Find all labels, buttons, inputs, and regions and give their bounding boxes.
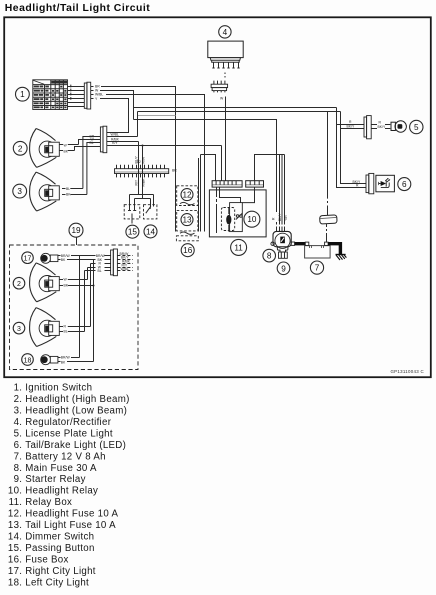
svg-text:Main Fuse 30 A: Main Fuse 30 A bbox=[25, 463, 97, 474]
svg-text:16.: 16. bbox=[8, 554, 22, 565]
svg-text:W/BL: W/BL bbox=[111, 132, 119, 136]
ignition switch connector bbox=[84, 82, 93, 109]
svg-text:13: 13 bbox=[182, 216, 192, 225]
main fuse holder pill bbox=[320, 215, 338, 224]
svg-text:W: W bbox=[64, 278, 68, 282]
svg-text:BK: BK bbox=[64, 149, 69, 153]
circle label 6 bbox=[398, 178, 411, 191]
svg-text:17.: 17. bbox=[8, 566, 22, 577]
svg-text:17: 17 bbox=[24, 256, 32, 263]
svg-text:BK: BK bbox=[61, 258, 66, 262]
headlight H2 in box cone bbox=[30, 263, 60, 302]
fuse box bottom dashed stub bbox=[176, 236, 198, 241]
svg-text:11: 11 bbox=[234, 243, 243, 252]
svg-text:Headlight (Low Beam): Headlight (Low Beam) bbox=[25, 406, 127, 417]
wire labels below bar bbox=[135, 178, 146, 187]
fuse element 12 bbox=[180, 202, 195, 204]
svg-text:Y: Y bbox=[95, 97, 98, 101]
wire pill to battery terminal bbox=[326, 224, 328, 243]
svg-text:10: 10 bbox=[247, 215, 257, 224]
starter relay right nub bbox=[291, 242, 294, 245]
battery 7 bbox=[305, 242, 331, 258]
left city light 18 bbox=[41, 355, 58, 365]
wire headlight pin3 down through bar to switches bbox=[138, 142, 140, 195]
svg-text:15.: 15. bbox=[8, 543, 22, 554]
circle label 13 bbox=[181, 214, 193, 226]
svg-text:Battery 12 V 8 Ah: Battery 12 V 8 Ah bbox=[25, 451, 106, 462]
circle label 16 bbox=[181, 244, 194, 257]
riser A in box bbox=[79, 256, 81, 358]
circle label 11 bbox=[231, 239, 247, 255]
regulator connector bbox=[211, 81, 228, 93]
circle label 9 bbox=[277, 262, 290, 275]
wire W ignition to bus A and bus D bbox=[100, 91, 134, 120]
circle label 19 bbox=[69, 223, 83, 237]
svg-text:BL: BL bbox=[64, 329, 68, 333]
svg-text:9.: 9. bbox=[14, 474, 23, 485]
wire battery plus feed from bus B bbox=[327, 112, 329, 216]
svg-text:R: R bbox=[379, 120, 382, 124]
svg-text:8: 8 bbox=[267, 252, 272, 261]
circle label 4 bbox=[219, 26, 231, 38]
svg-text:6.: 6. bbox=[14, 440, 23, 451]
svg-text:6: 6 bbox=[402, 180, 407, 189]
wires H3 in box bbox=[59, 325, 90, 334]
svg-text:5.: 5. bbox=[14, 428, 23, 439]
bus D horizontal to starter relay bbox=[134, 120, 277, 213]
headlight connector right pin wires bbox=[107, 132, 222, 145]
svg-text:Dimmer Switch: Dimmer Switch bbox=[25, 532, 94, 543]
svg-text:R/W: R/W bbox=[142, 156, 146, 163]
circle label 17 bbox=[22, 252, 34, 264]
starter relay 9 body bbox=[271, 231, 295, 258]
circle label 12 bbox=[181, 189, 193, 201]
headlight connector left pins labels bbox=[90, 134, 101, 146]
circle label 1 bbox=[16, 87, 30, 101]
svg-text:4.: 4. bbox=[14, 417, 23, 428]
svg-text:BK: BK bbox=[61, 360, 66, 364]
wire vertical x201 down bbox=[200, 155, 202, 232]
thick wire starter relay to battery bbox=[295, 242, 305, 245]
svg-text:1: 1 bbox=[20, 90, 25, 99]
right city light 17 bbox=[41, 253, 58, 263]
svg-text:14.: 14. bbox=[8, 532, 22, 543]
svg-text:10.: 10. bbox=[8, 486, 22, 497]
circle label 18 bbox=[22, 354, 34, 366]
svg-text:BK/Y: BK/Y bbox=[278, 213, 282, 221]
wire regulator to bus A and relay box bar1 bbox=[225, 97, 227, 181]
wire bus B right drop to comp5 and comp6 bbox=[341, 112, 367, 184]
tail brake light 6 box bbox=[376, 175, 395, 192]
svg-text:Right City Light: Right City Light bbox=[25, 566, 96, 577]
wire labels above bar bbox=[135, 155, 146, 163]
svg-text:5: 5 bbox=[414, 123, 419, 132]
headlight relay 10 internals bbox=[217, 187, 255, 233]
wires H3 up to connector risers bbox=[62, 137, 96, 197]
riser B in box bbox=[87, 268, 89, 280]
ground symbol bbox=[336, 255, 347, 261]
wires risers to box connector bbox=[80, 254, 111, 273]
junction dimmer branch bbox=[142, 145, 144, 147]
headlight H3 low beam cone bbox=[30, 172, 60, 211]
svg-text:7.: 7. bbox=[14, 451, 23, 462]
riser E ground in box bbox=[93, 260, 95, 362]
wire 19 to dashed box bbox=[76, 237, 78, 245]
wires H2 in box bbox=[59, 278, 93, 288]
svg-text:W: W bbox=[220, 97, 224, 101]
svg-text:3.: 3. bbox=[14, 406, 23, 417]
svg-text:Left City Light: Left City Light bbox=[25, 577, 89, 588]
svg-text:BL/Y: BL/Y bbox=[135, 155, 139, 163]
svg-text:2: 2 bbox=[17, 281, 21, 288]
headlight unit dashed box bbox=[10, 245, 139, 370]
svg-text:R/Y: R/Y bbox=[112, 141, 118, 145]
wire distributor 2 bbox=[135, 199, 151, 208]
ignition switch table bbox=[33, 80, 68, 110]
wires ignition switch to connector bbox=[68, 85, 85, 107]
svg-text:Passing Button: Passing Button bbox=[25, 543, 94, 554]
dashed stub wires right of box connector bbox=[117, 252, 133, 271]
svg-text:2: 2 bbox=[18, 144, 23, 153]
wire headlight pin4 long to relay bar1 bbox=[221, 146, 223, 181]
svg-text:15: 15 bbox=[128, 228, 138, 237]
wires H2 to connector bbox=[59, 140, 95, 154]
svg-text:BK: BK bbox=[64, 284, 69, 288]
svg-text:BR/W: BR/W bbox=[61, 356, 71, 360]
circle label 8 bbox=[263, 249, 276, 262]
wire dimmer branch down bbox=[142, 146, 144, 199]
svg-text:2.: 2. bbox=[14, 394, 23, 405]
svg-text:18.: 18. bbox=[8, 577, 22, 588]
riser C in box bbox=[90, 264, 92, 327]
svg-text:GP13110043 C: GP13110043 C bbox=[390, 369, 424, 374]
circle label 7 bbox=[310, 261, 323, 274]
starter relay left nub bbox=[271, 242, 274, 245]
junction riser E H2 bbox=[93, 285, 95, 287]
wire starter relay feeds dash-dot bbox=[272, 212, 289, 231]
passing button switch 15 bbox=[124, 205, 140, 224]
wires city light 17 bbox=[58, 254, 94, 262]
wire W/BL ignition down at x204.3 bbox=[106, 95, 205, 232]
svg-text:16: 16 bbox=[183, 246, 193, 255]
wire fuse box right vertical continuation bbox=[198, 158, 200, 232]
fuse element 13 bbox=[180, 232, 195, 234]
svg-text:BL: BL bbox=[66, 187, 70, 191]
circle label 14 bbox=[144, 225, 157, 238]
circle label 2b bbox=[13, 277, 25, 289]
regulator rectifier U4 body bbox=[208, 41, 243, 68]
svg-text:BK: BK bbox=[66, 193, 71, 197]
svg-text:11.: 11. bbox=[9, 497, 23, 508]
fuse 13 dashed box bbox=[177, 210, 198, 231]
svg-text:BK/Y: BK/Y bbox=[347, 125, 355, 129]
svg-text:12.: 12. bbox=[8, 509, 22, 520]
wire distributor to passing/dimmer switches bbox=[130, 195, 154, 207]
wire labels ignition right bbox=[95, 84, 103, 100]
svg-text:19: 19 bbox=[71, 226, 81, 235]
svg-text:License Plate Light: License Plate Light bbox=[25, 428, 113, 439]
svg-text:14: 14 bbox=[146, 227, 156, 236]
circle label 5 bbox=[410, 120, 423, 133]
headlight unit box connector bbox=[111, 249, 118, 276]
wires city light 18 bbox=[58, 356, 94, 365]
wire BR ignition to fuse box bbox=[101, 87, 176, 232]
svg-text:7: 7 bbox=[315, 264, 320, 273]
bus C faint short bbox=[138, 115, 176, 117]
headlight connector left bbox=[100, 126, 106, 153]
svg-text:W: W bbox=[64, 143, 68, 147]
relay box 11 outline bbox=[209, 190, 266, 237]
svg-text:Ignition Switch: Ignition Switch bbox=[25, 383, 92, 394]
headlight H3 in box cone bbox=[30, 308, 60, 347]
license plate light bulb 5 bbox=[391, 121, 406, 132]
tail brake light connector bbox=[366, 173, 374, 193]
multi-pin connector bar bbox=[115, 160, 178, 177]
svg-text:13.: 13. bbox=[8, 520, 22, 531]
wire bus A right drop to comp5 and comp6 bbox=[337, 108, 367, 188]
circle label 2 bbox=[13, 141, 27, 155]
bus A horizontal bbox=[134, 107, 337, 109]
bus B horizontal bbox=[138, 111, 341, 113]
dimmer switch 14 bbox=[144, 205, 157, 219]
svg-text:R/BK: R/BK bbox=[142, 178, 146, 187]
svg-text:Headlight Fuse 10 A: Headlight Fuse 10 A bbox=[25, 509, 118, 520]
svg-text:9: 9 bbox=[281, 264, 286, 273]
wire U to bar1 bbox=[201, 155, 216, 181]
svg-text:Relay Box: Relay Box bbox=[25, 497, 72, 508]
svg-text:Headlight/Tail Light Circuit: Headlight/Tail Light Circuit bbox=[5, 3, 150, 14]
circle label 3b bbox=[13, 322, 25, 334]
license plate light connector bbox=[364, 116, 390, 139]
svg-text:Fuse Box: Fuse Box bbox=[25, 554, 68, 565]
svg-text:12: 12 bbox=[182, 191, 192, 200]
main fuse 8 element bbox=[280, 237, 285, 244]
svg-text:3: 3 bbox=[17, 326, 21, 333]
thick wire battery to ground bbox=[328, 244, 340, 255]
riser D in box bbox=[84, 271, 86, 332]
svg-text:R: R bbox=[272, 217, 276, 220]
legend list bbox=[8, 383, 130, 589]
wire stub comp5 R bbox=[337, 124, 365, 126]
wire headlight pin2 riser up to bus B bbox=[137, 112, 139, 137]
relay box bar1 connector bbox=[212, 181, 242, 187]
wire stub comp5 BK/Y bbox=[341, 128, 365, 130]
fuse 12 dashed box bbox=[177, 186, 198, 206]
svg-text:Y/R: Y/R bbox=[284, 215, 288, 221]
svg-text:BL: BL bbox=[98, 269, 102, 273]
fuse box 16 group bbox=[176, 186, 198, 241]
relay box bar2 connector bbox=[246, 181, 264, 187]
svg-text:Tail/Brake Light (LED): Tail/Brake Light (LED) bbox=[25, 440, 126, 451]
svg-text:Starter Relay: Starter Relay bbox=[25, 474, 85, 485]
starter relay lower plug bbox=[277, 247, 288, 252]
svg-text:Tail Light Fuse 10 A: Tail Light Fuse 10 A bbox=[25, 520, 116, 531]
svg-text:18: 18 bbox=[24, 358, 32, 365]
svg-text:W/BL: W/BL bbox=[95, 92, 103, 96]
wire bar2 up over to starter relay bbox=[255, 155, 285, 213]
svg-text:BK/Y: BK/Y bbox=[378, 125, 386, 129]
regulator dashed link bbox=[224, 73, 226, 78]
svg-text:3: 3 bbox=[17, 187, 22, 196]
svg-text:R/Y: R/Y bbox=[135, 179, 139, 185]
circle label 3 bbox=[13, 184, 27, 198]
svg-text:4: 4 bbox=[223, 28, 228, 37]
border frame bbox=[4, 17, 431, 377]
svg-text:W/BL: W/BL bbox=[121, 267, 129, 271]
wire Y ignition to headlight connector pin1 bbox=[100, 99, 129, 133]
svg-text:Regulator/Rectifier: Regulator/Rectifier bbox=[25, 417, 111, 428]
svg-text:Headlight (High Beam): Headlight (High Beam) bbox=[25, 394, 129, 405]
svg-text:1.: 1. bbox=[14, 383, 23, 394]
circle label 10 bbox=[244, 211, 260, 227]
svg-text:Headlight Relay: Headlight Relay bbox=[25, 486, 98, 497]
svg-text:R: R bbox=[64, 325, 67, 329]
svg-text:BR: BR bbox=[172, 169, 177, 173]
circle label 15 bbox=[126, 225, 139, 238]
svg-text:8.: 8. bbox=[14, 463, 23, 474]
svg-text:R: R bbox=[349, 120, 352, 124]
headlight H2 high beam cone bbox=[30, 129, 60, 168]
